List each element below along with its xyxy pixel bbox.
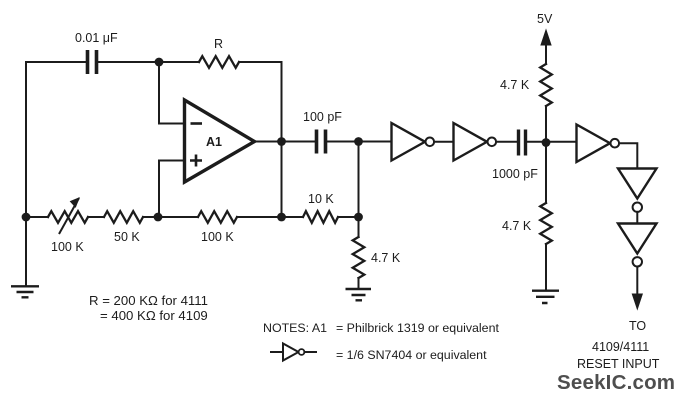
note A1 [263, 321, 499, 335]
label TO 4109/4111 RESET INPUT [577, 319, 660, 371]
wire cap to node B [328, 141, 392, 143]
svg-text:5V: 5V [537, 12, 553, 26]
node junction op-amp output [277, 137, 286, 146]
ground (mid) [346, 289, 372, 300]
wire U1 to U2 [434, 141, 453, 143]
resistor 4.7 K (lower) [540, 203, 552, 244]
svg-text:= 1/6 SN7404 or equivalent: = 1/6 SN7404 or equivalent [336, 348, 487, 362]
svg-text:4.7 K: 4.7 K [500, 78, 530, 92]
wire output arrow [632, 267, 642, 310]
wire node C down [545, 143, 547, 204]
node junction non-inverting tap [154, 213, 163, 222]
svg-text:4.7 K: 4.7 K [502, 219, 532, 233]
label 100 K (pot) [51, 240, 84, 254]
label 50 K [114, 230, 140, 244]
wire inverting input from top node [159, 62, 185, 124]
wire op-amp output [255, 141, 315, 143]
wire U4 to U5 [636, 212, 638, 223]
label 0.01 uF [75, 31, 118, 45]
5V supply arrow [541, 30, 551, 64]
wire feedback down to bottom rail [281, 142, 283, 218]
wire 100K to node [237, 216, 303, 218]
wire bottom rail seg1 [26, 216, 48, 218]
resistor 50 K [104, 211, 143, 223]
wire R to feedback corner [239, 62, 282, 142]
wire node to resistor R [159, 61, 199, 63]
svg-text:50 K: 50 K [114, 230, 140, 244]
wire left rail [25, 62, 27, 217]
wire U3 to U4 [619, 143, 637, 168]
svg-text:4109/4111: 4109/4111 [592, 340, 649, 354]
svg-text:1000 pF: 1000 pF [492, 167, 538, 181]
potentiometer 100 K [48, 198, 88, 234]
svg-text:TO: TO [629, 319, 646, 333]
node junction top (0.01uF / R / inverting input) [155, 58, 164, 67]
svg-text:R: R [214, 37, 223, 51]
label 4.7 K (mid) [371, 251, 401, 265]
inverter U1 [392, 123, 435, 161]
capacitor C1 0.01 uF [88, 50, 97, 74]
resistor R [199, 56, 239, 68]
ground (left) [11, 286, 39, 297]
svg-text:10 K: 10 K [308, 192, 334, 206]
label 100 pF [303, 110, 342, 124]
wire left rail to ground [25, 217, 27, 286]
resistor 100 K [198, 211, 237, 223]
wire 1000 pF to node C [528, 141, 577, 143]
label 5V [537, 12, 553, 26]
node junction after 100 pF [354, 137, 363, 146]
label R [214, 37, 223, 51]
svg-text:= 400 KΩ for 4109: = 400 KΩ for 4109 [100, 308, 208, 323]
label 4.7 K (lower) [502, 219, 532, 233]
label 1000 pF [492, 167, 538, 181]
svg-text:100 K: 100 K [201, 230, 234, 244]
inverter U5 (down) [618, 224, 657, 267]
inverter U4 (down) [618, 169, 657, 212]
wire lower 4.7K to ground [545, 244, 547, 291]
op-amp A1 [185, 100, 255, 182]
svg-text:SeekIC.com: SeekIC.com [557, 371, 675, 394]
watermark SeekIC.com [557, 371, 675, 394]
wire top rail left segment [26, 61, 86, 63]
wire non-inverting input from bottom rail [159, 161, 185, 218]
note SN7404 [336, 348, 487, 362]
wire node down to 10K / 4.7K [358, 142, 360, 218]
wire 50K to node [143, 216, 198, 218]
node junction feedback bottom [277, 213, 286, 222]
svg-text:100 K: 100 K [51, 240, 84, 254]
resistor 10 K [303, 211, 338, 223]
resistor 4.7 K (to ground, mid) [353, 217, 365, 289]
resistor 4.7 K (pullup) [540, 64, 552, 106]
inverter U2 [454, 123, 497, 161]
label 100 K [201, 230, 234, 244]
wire pot to 50K [88, 216, 104, 218]
node junction bottom-left [22, 213, 31, 222]
wire pullup to node C [545, 106, 547, 143]
svg-text:100 pF: 100 pF [303, 110, 342, 124]
svg-text:= Philbrick 1319 or equivalent: = Philbrick 1319 or equivalent [336, 321, 499, 335]
svg-text:4.7 K: 4.7 K [371, 251, 401, 265]
capacitor C3 1000 pF [519, 130, 526, 156]
wire U2 to 1000 pF [496, 141, 517, 143]
label 4.7 K (pullup) [500, 78, 530, 92]
inverter U3 [577, 125, 620, 163]
svg-text:0.01 μF: 0.01 μF [75, 31, 118, 45]
node junction 10K / 4.7K [354, 213, 363, 222]
svg-text:R = 200 KΩ for 4111: R = 200 KΩ for 4111 [89, 293, 208, 308]
svg-text:RESET INPUT: RESET INPUT [577, 357, 660, 371]
wire 10K to node [338, 216, 359, 218]
note inverter symbol [271, 344, 316, 361]
svg-text:NOTES: A1: NOTES: A1 [263, 321, 327, 335]
svg-text:A1: A1 [206, 135, 222, 149]
label 10 K [308, 192, 334, 206]
node junction C [542, 138, 551, 147]
wire cap to node [99, 61, 159, 63]
note R values [89, 293, 208, 323]
capacitor C2 100 pF [317, 130, 326, 154]
ground (right) [532, 291, 559, 303]
